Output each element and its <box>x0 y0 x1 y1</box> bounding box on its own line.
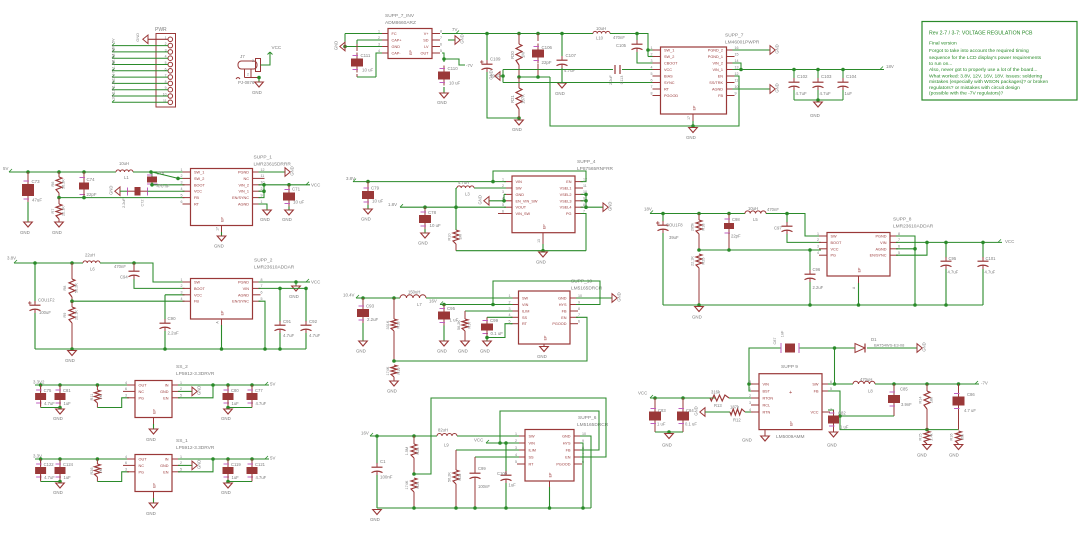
svg-text:BAT54WS-E3-08: BAT54WS-E3-08 <box>874 343 905 348</box>
svg-text:C97: C97 <box>774 226 782 231</box>
svg-text:GND: GND <box>221 490 231 495</box>
svg-text:6: 6 <box>502 209 504 213</box>
svg-text:PG: PG <box>566 212 572 216</box>
svg-text:R23: R23 <box>416 448 420 455</box>
svg-text:1: 1 <box>261 200 263 204</box>
svg-text:GND: GND <box>562 435 571 439</box>
svg-text:8: 8 <box>440 29 442 33</box>
svg-text:RTN: RTN <box>763 411 771 415</box>
svg-text:6: 6 <box>440 42 442 46</box>
svg-text:R12: R12 <box>733 418 741 423</box>
svg-text:6: 6 <box>830 380 832 384</box>
svg-text:VCC: VCC <box>194 293 202 297</box>
svg-text:GND: GND <box>810 113 820 118</box>
svg-text:7: 7 <box>651 85 653 89</box>
svg-text:C122: C122 <box>44 462 55 467</box>
svg-text:V+: V+ <box>424 32 430 36</box>
svg-text:C99: C99 <box>478 466 486 471</box>
svg-text:GND: GND <box>387 389 397 394</box>
svg-text:1 uF: 1 uF <box>840 425 849 430</box>
svg-text:18V: 18V <box>644 207 652 212</box>
svg-text:LMR23610ADDAR: LMR23610ADDAR <box>254 265 295 271</box>
svg-text:R15: R15 <box>919 434 923 441</box>
svg-text:C99: C99 <box>490 318 499 323</box>
svg-text:GND: GND <box>516 193 525 197</box>
svg-text:470 nF: 470 nF <box>157 184 170 189</box>
svg-text:1uF: 1uF <box>232 475 240 480</box>
svg-text:C93: C93 <box>366 304 375 309</box>
svg-text:5: 5 <box>509 320 511 324</box>
svg-text:C100: C100 <box>497 471 508 476</box>
svg-text:OUT: OUT <box>139 458 148 462</box>
svg-text:4.7uH: 4.7uH <box>458 180 469 185</box>
svg-text:EP: EP <box>409 50 413 55</box>
svg-text:6: 6 <box>261 291 263 295</box>
svg-text:1K: 1K <box>99 394 103 399</box>
svg-text:GND: GND <box>20 230 30 235</box>
svg-text:EP: EP <box>221 217 225 222</box>
svg-text:39k: 39k <box>961 434 965 440</box>
svg-text:GND: GND <box>694 406 699 415</box>
svg-text:L6: L6 <box>90 267 95 272</box>
svg-text:SS: SS <box>522 316 528 320</box>
svg-text:R7: R7 <box>51 209 55 214</box>
svg-text:6: 6 <box>651 78 653 82</box>
svg-text:COU1F2: COU1F2 <box>38 298 55 303</box>
svg-text:1K: 1K <box>99 468 103 473</box>
svg-text:C80: C80 <box>231 388 239 393</box>
svg-text:PGND: PGND <box>876 235 887 239</box>
svg-text:PG: PG <box>139 396 145 400</box>
svg-text:GND: GND <box>260 217 270 222</box>
svg-text:C79: C79 <box>371 186 380 191</box>
svg-text:C106: C106 <box>542 45 553 50</box>
svg-text:4.7uF: 4.7uF <box>948 270 959 275</box>
svg-text:174K: 174K <box>405 480 409 489</box>
svg-text:EN: EN <box>718 75 724 79</box>
svg-text:4.7 uF: 4.7 uF <box>964 408 976 413</box>
svg-text:3: 3 <box>817 245 819 249</box>
svg-text:1 uF: 1 uF <box>657 422 666 427</box>
svg-text:17: 17 <box>216 227 220 231</box>
svg-text:SYNC: SYNC <box>664 81 675 85</box>
svg-text:5: 5 <box>181 193 183 197</box>
svg-text:1uF: 1uF <box>64 401 72 406</box>
svg-text:PGND_2: PGND_2 <box>708 49 723 53</box>
svg-text:SUPP 9: SUPP 9 <box>781 364 798 370</box>
svg-text:VIN: VIN <box>763 383 770 387</box>
svg-text:GND: GND <box>512 127 522 132</box>
svg-text:VCC: VCC <box>831 247 839 251</box>
svg-text:3: 3 <box>125 468 127 472</box>
svg-text:GND: GND <box>478 195 483 204</box>
svg-text:0.1 uF: 0.1 uF <box>491 331 504 336</box>
svg-text:RT: RT <box>664 88 670 92</box>
svg-text:3: 3 <box>378 42 380 46</box>
svg-text:SW: SW <box>194 281 201 285</box>
svg-text:EP: EP <box>221 310 225 315</box>
svg-text:5V: 5V <box>112 38 116 43</box>
svg-text:to run on...: to run on... <box>929 61 952 67</box>
svg-text:C86: C86 <box>967 392 975 397</box>
svg-text:12V: 12V <box>112 86 116 93</box>
svg-text:3.3V2: 3.3V2 <box>33 380 45 385</box>
svg-text:205k: 205k <box>691 223 695 231</box>
svg-text:22uH: 22uH <box>85 253 95 258</box>
svg-text:IN: IN <box>165 384 169 388</box>
svg-text:SW: SW <box>529 435 536 439</box>
svg-text:GND: GND <box>361 217 371 222</box>
svg-text:VOUT: VOUT <box>516 206 527 210</box>
svg-text:22pF: 22pF <box>731 234 741 239</box>
svg-text:Rev 2-7 / 3-7: VOLTAGE REGULAT: Rev 2-7 / 3-7: VOLTAGE REGULATION PCB <box>929 31 1033 37</box>
svg-text:PG: PG <box>831 254 837 258</box>
svg-text:RT: RT <box>529 463 535 467</box>
svg-text:FB: FB <box>562 310 567 314</box>
svg-text:IN: IN <box>165 458 169 462</box>
svg-text:EN: EN <box>163 396 169 400</box>
svg-text:AGND: AGND <box>876 247 887 251</box>
svg-text:3: 3 <box>181 291 183 295</box>
svg-text:OUT: OUT <box>420 52 429 56</box>
svg-text:3: 3 <box>515 446 517 450</box>
svg-text:6: 6 <box>898 245 900 249</box>
svg-text:5: 5 <box>830 387 832 391</box>
svg-text:GND: GND <box>827 443 837 448</box>
svg-text:1: 1 <box>651 46 653 50</box>
svg-text:EP: EP <box>549 472 553 477</box>
svg-text:FB: FB <box>194 196 199 200</box>
svg-text:C1: C1 <box>380 459 386 464</box>
svg-text:GND: GND <box>109 186 114 195</box>
svg-text:GND: GND <box>418 241 428 246</box>
svg-text:GND: GND <box>922 342 927 351</box>
svg-text:2.2uF: 2.2uF <box>122 197 126 207</box>
svg-text:Forgot to take into account th: Forgot to take into account the required… <box>929 48 1029 54</box>
svg-text:mistakes (especially with WSON: mistakes (especially with WSON packages)… <box>929 79 1048 85</box>
svg-text:4.7uF: 4.7uF <box>309 333 321 338</box>
svg-text:EP: EP <box>693 105 697 110</box>
svg-text:C119: C119 <box>231 462 241 467</box>
svg-text:GND: GND <box>290 166 295 175</box>
svg-text:SS: SS <box>529 456 535 460</box>
svg-text:EN: EN <box>163 470 169 474</box>
svg-text:A: A <box>216 321 220 324</box>
svg-text:11: 11 <box>583 184 587 188</box>
svg-text:3.9nF: 3.9nF <box>901 402 912 407</box>
svg-text:1nF: 1nF <box>781 330 785 337</box>
svg-text:4.7uF: 4.7uF <box>985 270 996 275</box>
svg-text:GND: GND <box>289 294 299 299</box>
svg-text:2.2uF: 2.2uF <box>168 331 180 336</box>
svg-text:1: 1 <box>817 232 819 236</box>
svg-text:C95: C95 <box>447 306 456 311</box>
svg-text:VCC: VCC <box>311 183 320 188</box>
svg-text:SUPP_2: SUPP_2 <box>254 258 273 264</box>
svg-text:PWR: PWR <box>155 27 167 33</box>
svg-text:C75: C75 <box>44 388 52 393</box>
svg-text:VSEL3: VSEL3 <box>560 199 572 203</box>
svg-text:7V: 7V <box>452 27 457 32</box>
svg-text:BOOT: BOOT <box>194 287 205 291</box>
svg-text:C77: C77 <box>255 388 263 393</box>
svg-text:VIN_2: VIN_2 <box>238 183 249 187</box>
svg-text:56.2K: 56.2K <box>62 179 66 189</box>
svg-text:4: 4 <box>817 251 819 255</box>
svg-text:EN/SYNC: EN/SYNC <box>870 254 887 258</box>
svg-text:EN/SYNC: EN/SYNC <box>232 300 249 304</box>
svg-text:D1: D1 <box>871 337 877 342</box>
svg-text:VCC: VCC <box>194 190 202 194</box>
svg-text:SS_2: SS_2 <box>176 364 188 370</box>
svg-text:GND: GND <box>460 34 465 43</box>
svg-text:2: 2 <box>180 387 182 391</box>
svg-text:GND: GND <box>197 386 202 395</box>
svg-text:LMR23615DRRR: LMR23615DRRR <box>254 162 292 168</box>
svg-text:LP5912-3.3DRVR: LP5912-3.3DRVR <box>176 445 215 451</box>
svg-text:7: 7 <box>898 238 900 242</box>
svg-text:11: 11 <box>261 174 265 178</box>
svg-text:C90: C90 <box>168 316 177 321</box>
svg-text:10: 10 <box>578 294 582 298</box>
svg-text:L9: L9 <box>444 443 449 448</box>
svg-text:15: 15 <box>735 52 739 56</box>
svg-text:GND: GND <box>146 511 156 516</box>
svg-text:PGND: PGND <box>238 171 249 175</box>
svg-text:EP: EP <box>858 267 862 272</box>
svg-text:470nF: 470nF <box>767 207 779 212</box>
svg-text:AGND: AGND <box>238 293 249 297</box>
svg-text:CAP+: CAP+ <box>392 39 403 43</box>
svg-text:187k: 187k <box>730 405 740 410</box>
svg-text:C110: C110 <box>448 66 459 71</box>
svg-text:100nF: 100nF <box>380 475 393 480</box>
svg-text:R26: R26 <box>90 468 94 475</box>
svg-text:LM5165DRCR: LM5165DRCR <box>571 286 603 292</box>
svg-text:5: 5 <box>515 460 517 464</box>
svg-text:GND: GND <box>135 33 140 42</box>
svg-text:C73: C73 <box>32 179 41 184</box>
svg-text:GND: GND <box>392 45 401 49</box>
svg-text:316k: 316k <box>711 390 721 395</box>
svg-text:1: 1 <box>180 381 182 385</box>
svg-text:3.8V: 3.8V <box>346 176 355 181</box>
svg-text:C124: C124 <box>63 462 74 467</box>
svg-text:R17: R17 <box>468 322 472 329</box>
svg-text:C98: C98 <box>732 217 740 222</box>
svg-text:SW_1: SW_1 <box>194 171 204 175</box>
svg-text:C95: C95 <box>949 256 957 261</box>
svg-text:GND: GND <box>252 90 262 95</box>
svg-text:C81: C81 <box>63 388 71 393</box>
svg-text:C94: C94 <box>120 275 128 280</box>
svg-text:C113: C113 <box>620 76 624 85</box>
svg-text:NC: NC <box>139 390 145 394</box>
svg-text:+: + <box>789 390 792 396</box>
svg-text:R11: R11 <box>90 394 94 401</box>
svg-text:VIN: VIN <box>516 180 523 184</box>
svg-text:4.7uF: 4.7uF <box>44 475 55 480</box>
svg-text:5V: 5V <box>3 166 8 171</box>
svg-text:GND: GND <box>608 202 613 211</box>
svg-text:4.7uF: 4.7uF <box>283 333 295 338</box>
svg-text:NC: NC <box>244 177 250 181</box>
svg-text:C111: C111 <box>361 53 371 58</box>
svg-text:SUPP_4: SUPP_4 <box>577 159 596 165</box>
svg-text:4: 4 <box>651 65 653 69</box>
svg-text:22pF: 22pF <box>542 60 552 65</box>
svg-text:7: 7 <box>261 284 263 288</box>
svg-text:BST: BST <box>763 390 771 394</box>
svg-text:HYS: HYS <box>563 442 571 446</box>
svg-text:470uH: 470uH <box>860 377 872 382</box>
svg-text:GND: GND <box>949 453 959 458</box>
svg-text:22.1K: 22.1K <box>62 206 66 216</box>
svg-text:7: 7 <box>578 313 580 317</box>
svg-text:2: 2 <box>509 300 511 304</box>
svg-text:SUPP_8: SUPP_8 <box>893 217 912 223</box>
svg-text:C104: C104 <box>846 74 857 79</box>
svg-text:C78: C78 <box>428 210 437 215</box>
svg-text:10uH: 10uH <box>748 206 758 211</box>
svg-text:10 uF: 10 uF <box>293 200 305 205</box>
svg-text:7: 7 <box>583 209 585 213</box>
svg-text:56.2K: 56.2K <box>75 283 79 293</box>
svg-text:-7V: -7V <box>466 63 473 68</box>
svg-text:11: 11 <box>735 78 739 82</box>
svg-text:PGND: PGND <box>238 281 249 285</box>
svg-text:J7: J7 <box>240 54 245 59</box>
svg-text:C74: C74 <box>87 177 96 182</box>
svg-text:FC: FC <box>392 32 397 36</box>
svg-text:2.4k: 2.4k <box>930 433 934 440</box>
svg-text:GND: GND <box>437 100 447 105</box>
svg-text:4: 4 <box>181 187 183 191</box>
svg-text:5: 5 <box>261 297 263 301</box>
svg-text:1: 1 <box>181 168 183 172</box>
svg-text:EN: EN <box>561 316 567 320</box>
svg-text:3: 3 <box>181 181 183 185</box>
svg-text:9: 9 <box>735 91 737 95</box>
svg-text:4: 4 <box>378 49 380 53</box>
svg-text:7: 7 <box>440 36 442 40</box>
svg-text:GND: GND <box>917 453 927 458</box>
svg-text:C92: C92 <box>309 319 318 324</box>
svg-text:SW: SW <box>516 187 523 191</box>
svg-text:10.4V: 10.4V <box>343 293 355 298</box>
svg-text:R24: R24 <box>416 482 420 489</box>
svg-text:GND: GND <box>742 438 752 443</box>
svg-text:VCC: VCC <box>638 391 647 396</box>
svg-text:VIN_SW: VIN_SW <box>516 212 531 216</box>
svg-text:GND: GND <box>52 230 62 235</box>
svg-text:56.2K: 56.2K <box>457 320 461 330</box>
svg-text:-7V: -7V <box>981 381 988 386</box>
svg-text:9: 9 <box>582 439 584 443</box>
svg-text:FB: FB <box>814 390 819 394</box>
svg-text:R14: R14 <box>919 397 923 404</box>
svg-text:4.7uF: 4.7uF <box>256 475 267 480</box>
svg-text:SD: SD <box>423 39 429 43</box>
svg-text:(possible with the -7V regulat: (possible with the -7V regulators)? <box>929 90 1003 96</box>
svg-text:C71: C71 <box>292 187 301 192</box>
svg-text:1M: 1M <box>521 52 526 58</box>
svg-text:1: 1 <box>181 278 183 282</box>
svg-text:R25: R25 <box>702 258 706 265</box>
svg-text:FB: FB <box>194 300 199 304</box>
svg-text:GND: GND <box>775 83 780 92</box>
svg-text:1: 1 <box>515 432 517 436</box>
svg-text:VIN_1: VIN_1 <box>712 68 723 72</box>
svg-text:PG: PG <box>139 470 145 474</box>
svg-text:13: 13 <box>735 65 739 69</box>
svg-text:CAP-: CAP- <box>392 52 402 56</box>
svg-text:R16: R16 <box>950 434 954 441</box>
svg-text:GND: GND <box>53 416 63 421</box>
svg-text:BIAS: BIAS <box>664 75 673 79</box>
svg-text:sequence for the LCD display's: sequence for the LCD display's power req… <box>929 55 1042 61</box>
svg-text:GND: GND <box>146 437 156 442</box>
svg-text:GND: GND <box>221 416 231 421</box>
svg-text:GND: GND <box>692 315 702 320</box>
svg-text:VCC: VCC <box>810 411 818 415</box>
svg-text:L10: L10 <box>596 36 604 41</box>
svg-text:regulators? or mistakes with c: regulators? or mistakes with circuit des… <box>929 85 1020 91</box>
svg-text:GND: GND <box>686 135 696 140</box>
svg-text:2: 2 <box>181 284 183 288</box>
svg-text:EN/SYNC: EN/SYNC <box>232 196 249 200</box>
svg-text:174K: 174K <box>386 366 390 375</box>
svg-text:C83: C83 <box>658 408 666 413</box>
svg-text:OUT: OUT <box>139 384 148 388</box>
svg-text:5: 5 <box>180 468 182 472</box>
svg-text:10 uF: 10 uF <box>430 223 442 228</box>
svg-text:R8: R8 <box>63 286 67 291</box>
svg-text:C72: C72 <box>141 200 145 207</box>
svg-text:GND: GND <box>480 349 490 354</box>
svg-text:9: 9 <box>261 193 263 197</box>
svg-text:LM5009AMM: LM5009AMM <box>776 434 805 440</box>
svg-text:3: 3 <box>502 190 504 194</box>
svg-text:2: 2 <box>651 52 653 56</box>
svg-text:13: 13 <box>537 239 541 243</box>
svg-text:C109: C109 <box>490 57 501 62</box>
svg-text:GND: GND <box>489 70 494 79</box>
svg-text:VCC: VCC <box>311 280 320 285</box>
svg-text:CBOOT: CBOOT <box>664 62 678 66</box>
svg-text:2: 2 <box>181 174 183 178</box>
svg-text:2: 2 <box>817 238 819 242</box>
svg-text:100uF: 100uF <box>39 310 51 315</box>
svg-text:SUPP_7: SUPP_7 <box>725 33 744 39</box>
svg-text:PGOOD: PGOOD <box>664 94 678 98</box>
svg-text:LM46001PWPR: LM46001PWPR <box>725 40 760 46</box>
svg-text:4: 4 <box>749 408 751 412</box>
svg-text:1uF: 1uF <box>509 483 517 488</box>
svg-text:ILIM: ILIM <box>529 449 536 453</box>
svg-text:GND: GND <box>617 292 622 301</box>
svg-text:5: 5 <box>502 203 504 207</box>
svg-text:10 uF: 10 uF <box>449 81 461 86</box>
svg-text:R10: R10 <box>448 234 452 241</box>
svg-text:GND: GND <box>537 354 547 359</box>
svg-text:6: 6 <box>578 320 580 324</box>
svg-text:10: 10 <box>735 85 739 89</box>
svg-text:GND: GND <box>214 244 224 249</box>
svg-text:2: 2 <box>749 394 751 398</box>
svg-text:C103: C103 <box>821 74 832 79</box>
svg-text:PGOOD: PGOOD <box>552 322 566 326</box>
